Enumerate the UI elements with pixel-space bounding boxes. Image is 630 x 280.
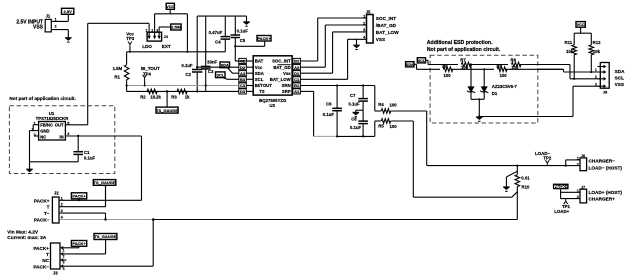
svg-text:TS_GAUGE: TS_GAUGE [94,234,116,239]
svg-text:3: 3 [363,28,365,32]
svg-text:SCL: SCL [255,77,264,82]
svg-text:100: 100 [444,73,452,78]
svg-text:0.1uF: 0.1uF [350,125,362,130]
svg-text:TP4: TP4 [143,71,151,76]
svg-text:1: 1 [363,14,365,18]
svg-text:B1: B1 [294,83,300,88]
svg-text:10k: 10k [566,49,574,54]
svg-text:VSS: VSS [376,37,385,42]
svg-text:R12: R12 [593,40,601,45]
svg-text:R9: R9 [511,58,517,63]
svg-text:/BAT_GD: /BAT_GD [376,23,397,28]
svg-text:0.1uF: 0.1uF [348,101,360,106]
svg-text:SDA: SDA [255,71,264,76]
svg-text:PACK+: PACK+ [72,241,86,246]
svg-text:TS_GAUGE: TS_GAUGE [156,108,178,113]
svg-text:Not part of application circui: Not part of application circuit. [9,96,75,101]
svg-text:SOC_INT: SOC_INT [376,16,396,21]
svg-text:R8: R8 [497,64,503,69]
svg-text:J5: J5 [366,9,371,14]
svg-text:R1: R1 [114,75,120,80]
svg-text:CHARGER+: CHARGER+ [589,197,616,202]
svg-text:SDA: SDA [406,63,414,67]
svg-text:0.47uF: 0.47uF [209,30,223,35]
svg-text:R7: R7 [460,58,466,63]
svg-text:AZ23C5V6-7: AZ23C5V6-7 [492,84,518,89]
svg-text:BAT_GD: BAT_GD [273,65,290,70]
svg-text:VCC: VCC [577,23,585,27]
svg-text:C4: C4 [215,39,221,44]
svg-text:J1: J1 [46,14,51,19]
svg-text:2: 2 [61,203,63,207]
svg-text:J6: J6 [581,154,585,158]
svg-text:FB/NC: FB/NC [40,123,53,128]
svg-text:Vss: Vss [283,71,291,76]
svg-text:1: 1 [55,18,57,22]
svg-text:NC: NC [40,134,46,139]
svg-text:R6: R6 [442,64,448,69]
svg-text:B3: B3 [240,77,246,82]
svg-text:SDA: SDA [221,64,229,68]
svg-text:100: 100 [500,73,508,78]
svg-text:4: 4 [63,267,65,271]
svg-text:C1: C1 [294,77,300,82]
svg-text:PACK−: PACK− [33,264,49,269]
svg-text:1: 1 [63,248,65,252]
svg-text:1: 1 [577,157,579,161]
svg-text:C7: C7 [350,93,356,98]
svg-text:PACK+: PACK+ [554,184,568,189]
svg-text:Additional ESD protection.: Additional ESD protection. [427,40,493,46]
svg-text:2: 2 [595,75,597,79]
svg-text:1: 1 [577,189,579,193]
svg-text:PACK+: PACK+ [72,194,86,199]
svg-text:0.1uF: 0.1uF [181,63,193,68]
svg-text:LDO: LDO [142,44,152,49]
svg-text:C3: C3 [240,83,246,88]
svg-text:100: 100 [390,102,398,107]
svg-text:0.1uF: 0.1uF [237,28,249,33]
svg-text:R11: R11 [565,40,573,45]
svg-text:1k: 1k [185,94,190,99]
svg-text:GND: GND [40,129,49,134]
svg-text:SCL: SCL [615,76,625,81]
svg-text:C2: C2 [240,59,246,64]
svg-text:2.5IN: 2.5IN [171,25,181,30]
svg-text:1: 1 [61,196,63,200]
svg-text:A2: A2 [294,65,300,70]
svg-text:LOAD+ (HOST): LOAD+ (HOST) [589,190,623,195]
svg-text:LOAD−: LOAD− [535,151,550,156]
svg-text:LOAD− (HOST): LOAD− (HOST) [589,165,623,170]
svg-text:BI/TOUT: BI/TOUT [255,83,272,88]
svg-text:2.5V: 2.5V [64,9,73,14]
svg-text:R4: R4 [378,102,384,107]
svg-text:Vin Max: 4.2V: Vin Max: 4.2V [7,229,39,235]
svg-text:3: 3 [595,82,597,86]
svg-text:3: 3 [34,133,36,137]
svg-text:2: 2 [55,25,57,29]
svg-text:10k: 10k [593,49,601,54]
svg-text:R3: R3 [171,94,177,99]
svg-text:D2: D2 [240,65,246,70]
svg-text:D1: D1 [492,91,498,96]
svg-text:VSS: VSS [33,24,44,30]
svg-text:1: 1 [595,68,597,72]
svg-text:PACK+: PACK+ [34,198,50,203]
svg-text:C5: C5 [240,38,246,43]
svg-text:NC: NC [42,258,49,263]
svg-text:2: 2 [577,162,579,166]
svg-text:B2: B2 [294,59,300,64]
svg-text:0.1uF: 0.1uF [84,155,96,160]
svg-text:3: 3 [63,261,65,265]
svg-text:BAT: BAT [255,59,264,64]
svg-text:BAT_LOW: BAT_LOW [376,30,399,35]
svg-text:J8: J8 [603,90,608,95]
svg-text:TP3: TP3 [126,36,135,41]
svg-text:A1: A1 [294,89,300,94]
svg-text:SRN: SRN [282,83,291,88]
svg-text:2: 2 [577,195,579,199]
svg-text:R2: R2 [140,94,146,99]
svg-text:T: T [47,205,50,210]
svg-text:C3: C3 [208,69,214,74]
svg-text:U3: U3 [269,103,275,108]
svg-text:Not part of application circui: Not part of application circuit. [427,47,501,53]
svg-text:100: 100 [390,124,398,129]
svg-text:SCL: SCL [418,59,426,63]
svg-text:TPS71525DCKR: TPS71525DCKR [36,116,70,121]
svg-text:2: 2 [363,21,365,25]
svg-text:IN: IN [59,134,63,139]
svg-text:TS: TS [259,89,265,94]
svg-text:OUT: OUT [55,123,64,128]
svg-text:PACK+: PACK+ [33,246,49,251]
svg-text:D1: D1 [294,71,300,76]
svg-text:EXT: EXT [162,44,171,49]
svg-text:3: 3 [61,209,63,213]
svg-text:D3: D3 [240,89,246,94]
svg-text:LOAD+: LOAD+ [554,209,569,214]
svg-text:SCL: SCL [216,73,224,77]
svg-text:A3: A3 [240,71,246,76]
svg-text:R5: R5 [378,124,384,129]
svg-text:18.2k: 18.2k [150,94,161,99]
svg-text:R10: R10 [522,185,530,190]
svg-text:C6: C6 [326,101,332,106]
svg-text:BAT_LOW: BAT_LOW [270,77,292,82]
svg-text:1.5M: 1.5M [113,66,123,71]
svg-text:PACK−: PACK− [34,218,50,223]
svg-text:J7: J7 [581,185,585,189]
svg-text:33nF: 33nF [207,60,217,65]
svg-text:C2: C2 [185,72,191,77]
svg-text:VCC: VCC [166,5,174,9]
svg-text:J3: J3 [53,271,58,276]
svg-text:TS_GAUGE: TS_GAUGE [94,180,116,185]
svg-text:Vcc: Vcc [255,65,263,70]
svg-text:PACK+: PACK+ [257,36,271,41]
svg-text:SDA: SDA [615,69,626,74]
svg-text:T: T [46,252,49,257]
svg-text:SRP: SRP [282,89,291,94]
svg-text:CHARGER−: CHARGER− [589,158,616,163]
svg-text:0.01: 0.01 [521,175,530,180]
svg-text:VSS: VSS [615,82,624,87]
svg-text:2: 2 [63,255,65,259]
svg-text:SOC_INT: SOC_INT [272,59,291,64]
svg-text:T−: T− [44,211,50,216]
svg-text:Current: max: 3A: Current: max: 3A [7,235,46,241]
svg-text:0.1uF: 0.1uF [323,112,335,117]
svg-text:J2: J2 [54,190,59,195]
